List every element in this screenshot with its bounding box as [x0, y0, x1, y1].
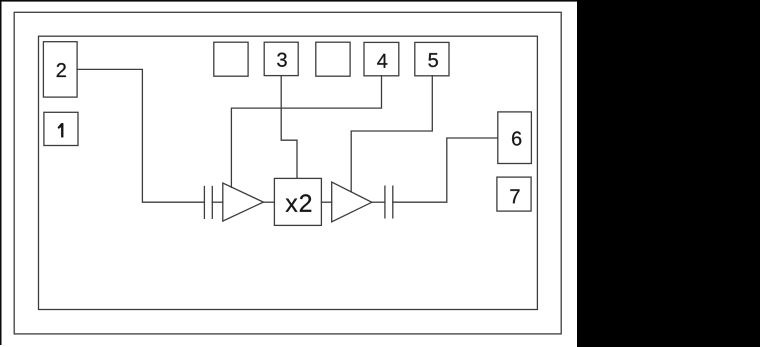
wire A2 output to C2: [372, 201, 385, 203]
capacitor C1 plate left: [203, 187, 205, 219]
wire C1 to A1 input: [212, 201, 223, 203]
label 3: [277, 53, 287, 67]
amplifier A2: [332, 182, 372, 222]
capacitor C1 plate right: [211, 187, 213, 219]
wire A1 output to x2: [263, 201, 274, 203]
label 5: [428, 53, 438, 67]
pin box 1: [44, 112, 78, 145]
wire pin4 to A1 top: [231, 76, 381, 188]
pin box 5: [415, 42, 449, 75]
label 1: [58, 123, 64, 137]
amplifier A1: [223, 183, 264, 221]
pin box 7: [497, 177, 531, 211]
outer package rectangle: [14, 12, 561, 334]
multiplier block x2: [274, 178, 321, 225]
capacitor C2 plate left: [384, 186, 386, 218]
pin box 4: [364, 42, 399, 75]
wire x2 to A2 input: [321, 201, 331, 203]
wire pin5 to A2 top: [351, 76, 432, 192]
top screen edge: [0, 0, 577, 2]
label 4: [377, 54, 387, 68]
wire pin3 to x2 top: [281, 76, 297, 179]
right black panel: [577, 0, 760, 347]
capacitor C2 plate right: [392, 186, 394, 218]
wire C2 to pin6: [393, 138, 498, 202]
pin box B (unlabeled): [316, 42, 350, 76]
pin box A (unlabeled): [214, 42, 248, 76]
pin box 3: [264, 42, 298, 75]
pin box 2: [43, 42, 77, 97]
wire pin2 to C1: [77, 69, 204, 202]
label x2: [286, 194, 312, 212]
left screen edge: [0, 0, 2, 345]
label 2: [57, 63, 66, 77]
label 7: [510, 189, 519, 203]
pin box 6: [498, 112, 532, 164]
inner die rectangle: [39, 36, 538, 309]
label 6: [512, 131, 521, 145]
